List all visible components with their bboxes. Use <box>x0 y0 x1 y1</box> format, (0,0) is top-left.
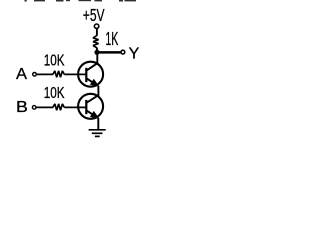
svg-text:+5V: +5V <box>83 5 105 25</box>
output terminal Y <box>121 50 125 54</box>
svg-text:A: A <box>16 66 28 83</box>
ground <box>89 130 106 137</box>
resistor R1 1K (vertical zigzag) <box>93 35 98 47</box>
svg-text:10K: 10K <box>44 53 65 70</box>
svg-text:B: B <box>16 99 28 116</box>
transistor Q1 (top NPN) <box>78 62 103 87</box>
wire: Q2 emitter to ground <box>97 118 99 130</box>
svg-text:Y: Y <box>129 46 140 63</box>
resistor R3 10K (input B zigzag) <box>53 104 64 110</box>
power terminal +5V <box>94 24 98 28</box>
wire: +5V terminal to R1 <box>96 29 98 36</box>
wire: R3 to Q2 base <box>64 106 86 108</box>
svg-text:1K: 1K <box>105 29 118 49</box>
wire: R1 to node Y <box>96 48 98 54</box>
junction dot (node Y) <box>94 50 99 55</box>
resistor R2 10K (input A zigzag) <box>53 71 64 77</box>
input terminal B <box>32 106 36 110</box>
wire: node Y down to Q1 collector <box>96 52 98 64</box>
input terminal A <box>33 73 37 77</box>
wire: terminal B to R3 <box>37 106 54 108</box>
wire: terminal A to R2 <box>37 73 53 75</box>
cropped text remnants (top edge) <box>25 0 137 2</box>
wire: Q1 emitter to Q2 collector <box>97 86 99 97</box>
wire: node Y to output terminal <box>97 51 121 54</box>
wire: R2 to Q1 base <box>64 73 86 75</box>
transistor Q2 (bottom NPN) <box>78 94 103 119</box>
svg-text:10K: 10K <box>44 85 65 102</box>
